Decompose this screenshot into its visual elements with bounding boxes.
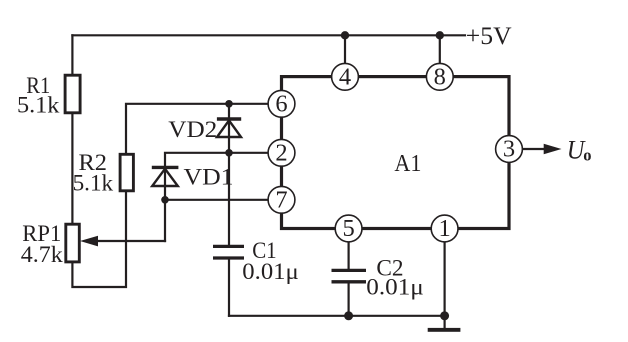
wire R1 bottom to RP1 top: [71, 113, 73, 225]
svg-text:1: 1: [438, 215, 450, 242]
svg-text:2: 2: [275, 139, 287, 166]
label Uo output: [567, 135, 592, 165]
resistor R1: [65, 75, 80, 113]
output arrowhead: [544, 144, 562, 155]
junction pin2 net / VD2 anode: [225, 149, 233, 157]
junction pin7 net / VD1 anode: [161, 196, 169, 204]
svg-text:7: 7: [275, 186, 287, 213]
wire R2 top lead up and pin 6 net: [126, 104, 282, 155]
wire RP1 bottom loop to R2 bottom: [72, 191, 126, 288]
svg-text:4: 4: [339, 63, 351, 90]
wire pin 4 lead from rail: [344, 35, 346, 76]
svg-text:+5V: +5V: [466, 23, 512, 50]
wire pin 5 lead to C2 top: [348, 229, 350, 270]
junction on +5V rail at pin 4: [341, 31, 349, 39]
capacitor C2: [332, 270, 367, 281]
pin 7 circle: [268, 186, 295, 213]
svg-text:4.7k: 4.7k: [21, 242, 63, 268]
wire C1 bottom to ground rail: [228, 259, 230, 316]
capacitor C1: [213, 246, 244, 258]
wire pin 7 net: [165, 199, 282, 201]
ground: [428, 328, 461, 332]
pin 1 circle: [431, 215, 458, 242]
wire VD2 lead from pin6 net through to C1: [228, 104, 230, 246]
svg-text:5.1k: 5.1k: [73, 171, 114, 197]
wire left vertical from +5V rail to R1 top: [71, 35, 73, 75]
svg-text:5: 5: [342, 215, 354, 242]
pin 5 circle: [335, 215, 362, 242]
junction ground rail / pin 1: [440, 311, 449, 320]
pin 4 circle: [332, 63, 359, 90]
pin 3 circle: [496, 136, 523, 163]
pin 8 circle: [426, 63, 453, 90]
wire wiper horizontal to RP1 arrow: [92, 240, 165, 242]
junction on +5V rail at pin 8: [436, 31, 444, 39]
svg-text:o: o: [583, 146, 591, 165]
wire bottom ground rail: [229, 315, 445, 317]
pin 6 circle: [268, 90, 295, 117]
svg-text:8: 8: [434, 63, 446, 90]
wire pin 2 net to VD1 cathode and through to wiper line: [165, 153, 282, 241]
diode VD2: [217, 119, 241, 137]
svg-text:3: 3: [503, 136, 515, 163]
wire pin 1 lead down to ground: [444, 229, 446, 329]
svg-text:5.1k: 5.1k: [17, 93, 60, 119]
wire C2 bottom to ground rail: [348, 283, 350, 316]
svg-text:0.01μ: 0.01μ: [242, 259, 299, 285]
op-amp IC A1 box: [282, 77, 510, 229]
junction pin6 net / VD2: [225, 100, 233, 108]
wire pin 8 lead from rail: [439, 35, 441, 76]
pin 2 circle: [268, 139, 295, 166]
svg-text:0.01μ: 0.01μ: [366, 275, 424, 301]
potentiometer RP1 wiper arrowhead: [80, 236, 98, 247]
diode VD1: [152, 167, 179, 186]
svg-text:VD1: VD1: [184, 165, 234, 191]
svg-text:VD2: VD2: [168, 117, 217, 143]
junction ground rail / C2: [344, 311, 353, 320]
resistor R2: [120, 154, 133, 191]
wire pin 3 output: [522, 148, 547, 150]
potentiometer RP1: [66, 224, 80, 262]
svg-text:6: 6: [275, 90, 287, 117]
svg-text:A1: A1: [394, 150, 421, 177]
wire +5V top rail: [72, 34, 465, 36]
